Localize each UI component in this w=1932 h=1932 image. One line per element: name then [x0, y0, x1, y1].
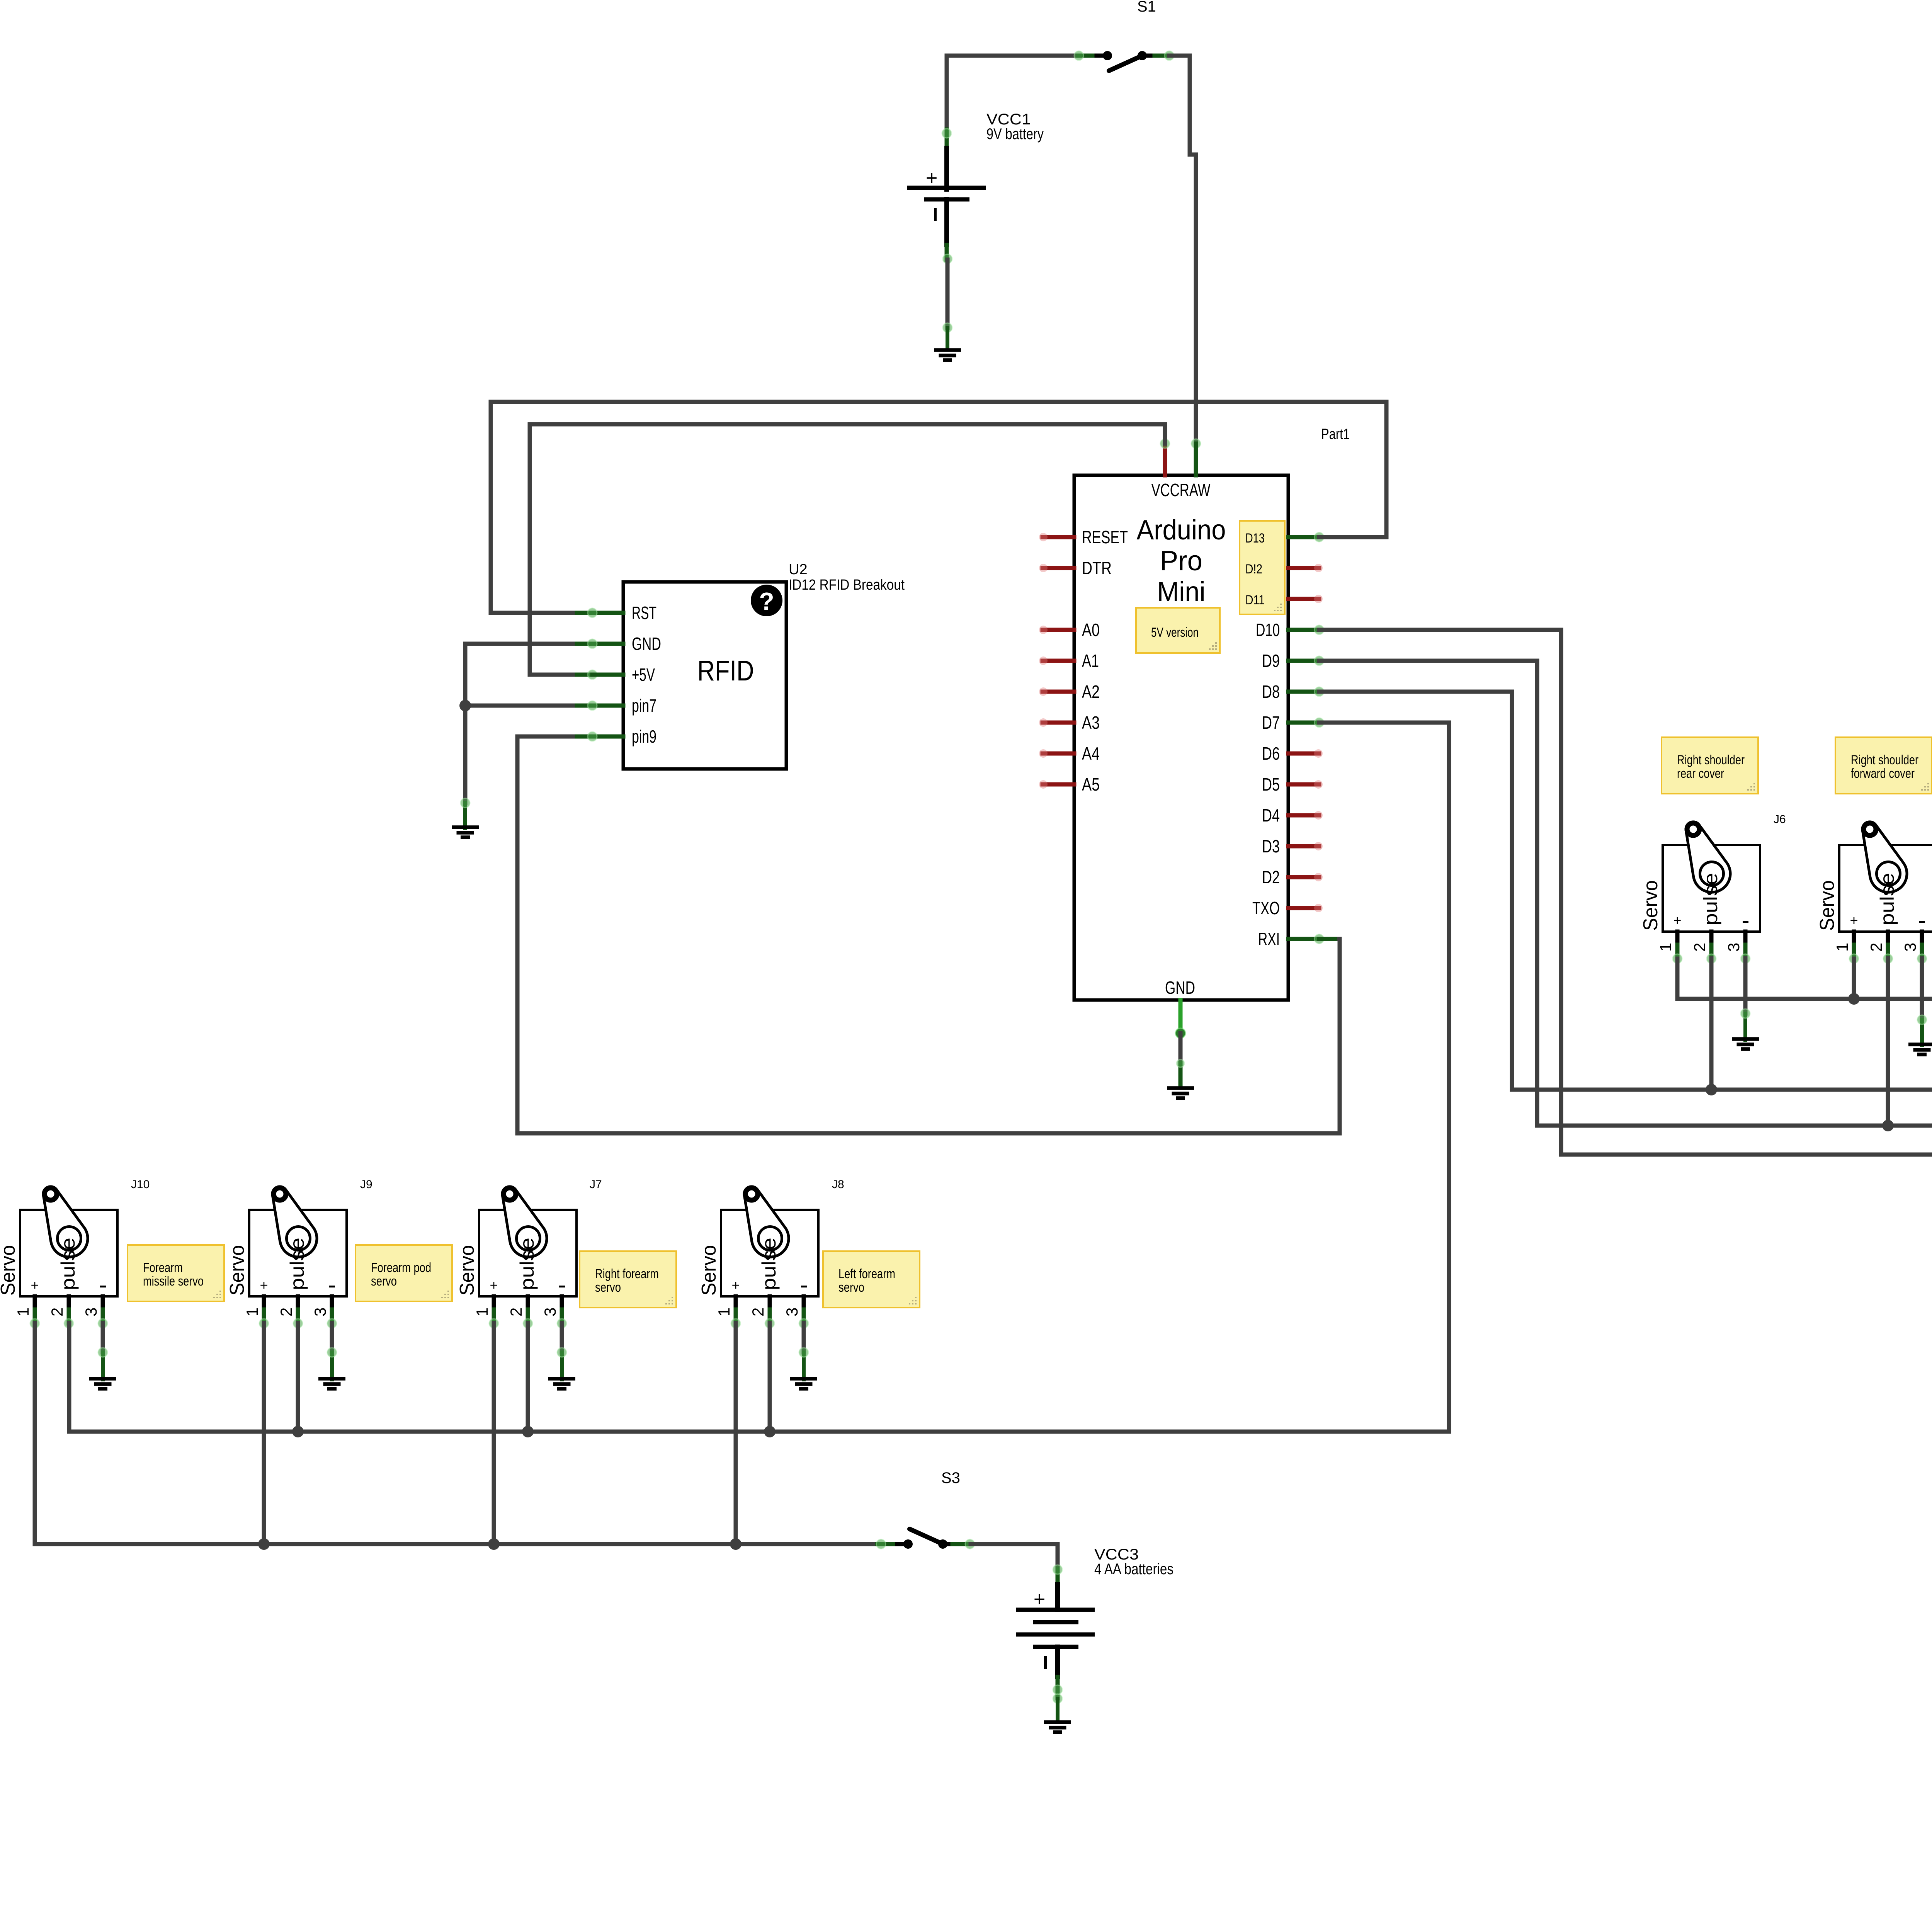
- svg-text:A4: A4: [1082, 743, 1100, 764]
- svg-text:D10: D10: [1256, 620, 1280, 640]
- svg-text:S3: S3: [941, 1469, 960, 1486]
- svg-text:Servo: Servo: [226, 1245, 248, 1296]
- svg-text:2: 2: [48, 1308, 66, 1316]
- svg-text:rear cover: rear cover: [1677, 766, 1724, 781]
- svg-text:5V version: 5V version: [1151, 625, 1199, 640]
- svg-text:9V battery: 9V battery: [986, 126, 1044, 143]
- svg-text:pulse: pulse: [758, 1238, 780, 1290]
- svg-text:pulse: pulse: [1876, 873, 1898, 925]
- svg-text:1: 1: [243, 1308, 261, 1316]
- svg-text:1: 1: [715, 1308, 733, 1316]
- svg-text:D13: D13: [1245, 531, 1265, 546]
- svg-text:+5V: +5V: [632, 665, 655, 685]
- svg-text:1: 1: [1656, 943, 1675, 952]
- svg-text:2: 2: [749, 1308, 767, 1316]
- svg-text:pulse: pulse: [286, 1238, 308, 1290]
- svg-text:A3: A3: [1082, 713, 1100, 733]
- svg-text:+: +: [926, 167, 937, 189]
- svg-text:+: +: [1034, 1588, 1045, 1611]
- svg-text:D!2: D!2: [1245, 562, 1262, 577]
- svg-text:RXI: RXI: [1258, 929, 1280, 949]
- svg-text:Mini: Mini: [1157, 577, 1206, 607]
- svg-text:J6: J6: [1774, 813, 1786, 826]
- svg-text:Right forearm: Right forearm: [595, 1267, 659, 1281]
- svg-text:missile servo: missile servo: [143, 1274, 204, 1289]
- svg-text:+: +: [1673, 912, 1681, 928]
- svg-text:GND: GND: [1165, 978, 1195, 998]
- svg-text:Part1: Part1: [1321, 426, 1350, 442]
- svg-text:2: 2: [1867, 943, 1885, 952]
- svg-text:+: +: [31, 1277, 39, 1293]
- svg-text:Forearm pod: Forearm pod: [371, 1260, 431, 1275]
- svg-text:2: 2: [507, 1308, 525, 1316]
- svg-text:Arduino: Arduino: [1137, 515, 1226, 546]
- svg-text:pulse: pulse: [57, 1238, 79, 1290]
- svg-text:GND: GND: [632, 634, 661, 654]
- svg-text:Forearm: Forearm: [143, 1260, 183, 1275]
- svg-text:D7: D7: [1262, 713, 1280, 733]
- svg-text:Servo: Servo: [698, 1245, 720, 1296]
- svg-text:ID12 RFID Breakout: ID12 RFID Breakout: [789, 577, 905, 593]
- svg-text:D4: D4: [1262, 805, 1280, 825]
- svg-text:J8: J8: [832, 1178, 844, 1191]
- svg-text:DTR: DTR: [1082, 558, 1112, 578]
- svg-text:D3: D3: [1262, 836, 1280, 856]
- svg-text:VCCRAW: VCCRAW: [1151, 480, 1211, 500]
- svg-text:3: 3: [1725, 943, 1743, 952]
- svg-text:D8: D8: [1262, 682, 1280, 702]
- svg-text:Servo: Servo: [1816, 880, 1838, 931]
- svg-text:2: 2: [1690, 943, 1709, 952]
- svg-text:3: 3: [311, 1308, 329, 1316]
- svg-text:Right shoulder: Right shoulder: [1851, 753, 1918, 767]
- svg-text:S1: S1: [1137, 0, 1156, 15]
- svg-text:Servo: Servo: [456, 1245, 478, 1296]
- svg-text:pin9: pin9: [632, 726, 656, 747]
- svg-text:servo: servo: [595, 1280, 621, 1295]
- svg-text:2: 2: [277, 1308, 295, 1316]
- svg-text:Left forearm: Left forearm: [838, 1267, 895, 1281]
- svg-text:U2: U2: [789, 561, 808, 578]
- svg-text:A1: A1: [1082, 651, 1099, 671]
- svg-text:Right shoulder: Right shoulder: [1677, 753, 1745, 767]
- svg-text:1: 1: [1833, 943, 1851, 952]
- svg-text:1: 1: [14, 1308, 32, 1316]
- svg-text:pulse: pulse: [1700, 873, 1721, 925]
- svg-text:D11: D11: [1245, 593, 1265, 607]
- svg-text:J10: J10: [131, 1178, 150, 1191]
- svg-text:D9: D9: [1262, 651, 1280, 671]
- svg-text:RST: RST: [632, 603, 656, 623]
- svg-text:3: 3: [82, 1308, 100, 1316]
- svg-text:J9: J9: [360, 1178, 372, 1191]
- svg-text:D2: D2: [1262, 867, 1280, 887]
- svg-text:forward cover: forward cover: [1851, 766, 1915, 781]
- svg-text:+: +: [1850, 912, 1858, 928]
- svg-text:3: 3: [783, 1308, 801, 1316]
- svg-text:+: +: [260, 1277, 268, 1293]
- svg-text:1: 1: [473, 1308, 491, 1316]
- svg-text:A2: A2: [1082, 682, 1100, 702]
- svg-text:TXO: TXO: [1252, 898, 1280, 918]
- svg-text:D6: D6: [1262, 743, 1280, 764]
- svg-text:+: +: [731, 1277, 740, 1293]
- svg-text:3: 3: [541, 1308, 559, 1316]
- svg-text:Servo: Servo: [0, 1245, 19, 1296]
- svg-text:Servo: Servo: [1639, 880, 1662, 931]
- svg-text:?: ?: [759, 587, 774, 615]
- svg-text:J7: J7: [590, 1178, 602, 1191]
- svg-text:4 AA batteries: 4 AA batteries: [1094, 1561, 1173, 1578]
- svg-text:A0: A0: [1082, 620, 1100, 640]
- svg-text:3: 3: [1901, 943, 1919, 952]
- svg-text:RFID: RFID: [697, 655, 754, 687]
- svg-text:RESET: RESET: [1082, 527, 1128, 547]
- svg-text:+: +: [490, 1277, 498, 1293]
- svg-text:pin7: pin7: [632, 696, 656, 716]
- svg-text:Pro: Pro: [1160, 546, 1202, 577]
- svg-text:pulse: pulse: [516, 1238, 538, 1290]
- svg-text:servo: servo: [838, 1280, 864, 1295]
- svg-text:D5: D5: [1262, 774, 1280, 794]
- svg-text:A5: A5: [1082, 774, 1100, 794]
- svg-text:servo: servo: [371, 1274, 397, 1289]
